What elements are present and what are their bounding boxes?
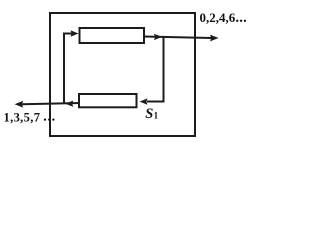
svg-text:1,3,5,7: 1,3,5,7 xyxy=(4,110,41,124)
svg-text:0,2,4,6: 0,2,4,6 xyxy=(200,10,236,25)
svg-text:S1: S1 xyxy=(145,106,158,122)
